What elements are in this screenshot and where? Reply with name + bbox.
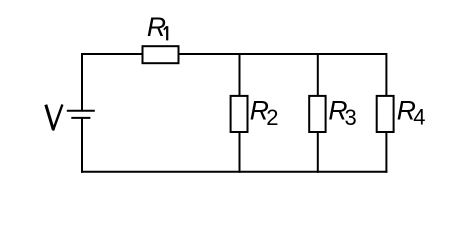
wire R2 branch vertical xyxy=(239,53,241,173)
label R1 subscript 1 xyxy=(166,26,168,40)
wire top horizontal xyxy=(82,53,386,55)
svg-text:2: 2 xyxy=(266,105,278,130)
resistor R1 xyxy=(143,46,179,63)
wire left vertical lower xyxy=(81,118,83,173)
resistor R4 xyxy=(377,96,394,132)
battery V top plate xyxy=(67,110,95,112)
svg-text:R: R xyxy=(147,12,166,42)
svg-text:4: 4 xyxy=(413,104,425,129)
wire R4 branch vertical xyxy=(385,53,387,173)
wire left vertical upper xyxy=(81,53,83,111)
battery V bottom plate xyxy=(71,117,90,119)
resistor R3 xyxy=(309,96,325,132)
label V source xyxy=(46,105,54,130)
wire bottom horizontal xyxy=(81,171,387,173)
svg-text:3: 3 xyxy=(345,105,357,130)
wire R3 branch vertical xyxy=(317,53,319,173)
resistor R2 xyxy=(231,96,248,132)
